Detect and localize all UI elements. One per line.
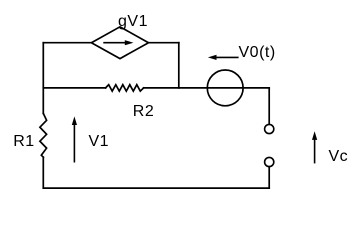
svg-text:Vc: Vc [329, 148, 349, 165]
svg-text:gV1: gV1 [118, 13, 148, 30]
svg-text:V0(t): V0(t) [239, 44, 276, 61]
svg-text:V1: V1 [89, 133, 110, 150]
svg-text:R2: R2 [133, 103, 154, 120]
svg-text:R1: R1 [13, 133, 34, 150]
